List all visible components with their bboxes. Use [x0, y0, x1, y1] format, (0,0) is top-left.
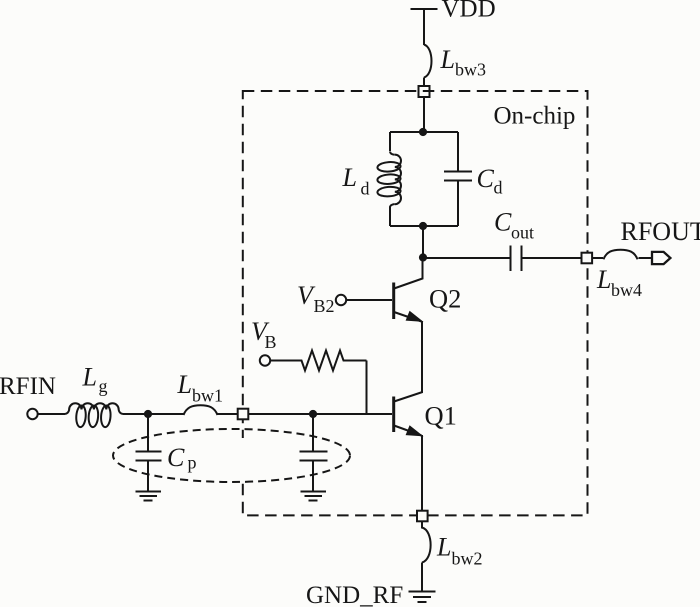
wire pad to tank top [423, 97, 425, 132]
svg-text:out: out [511, 223, 534, 243]
wire VB2 to Q2 base [346, 299, 392, 301]
inductor Lbw1 (bond-wire arc) [184, 405, 218, 415]
pad (bottom bond pad) [417, 511, 428, 522]
svg-text:RFIN: RFIN [0, 373, 56, 400]
capacitor Cp2 [300, 452, 328, 461]
svg-text:On-chip: On-chip [494, 103, 576, 130]
wire VDD to Lbw3 [423, 9, 425, 45]
node input (junction dot) [144, 410, 152, 418]
resistor RB (zigzag) [270, 351, 367, 371]
terminal VB2 (circle) [336, 295, 346, 305]
wire RFIN to Lg [38, 413, 66, 415]
label VDD [442, 0, 496, 23]
label Lbw1 [177, 370, 224, 406]
svg-text:bw1: bw1 [192, 386, 223, 406]
inductor Ld (coil) [377, 152, 401, 208]
ground GND_RF symbol [409, 592, 436, 603]
svg-text:d: d [494, 178, 503, 198]
svg-text:VDD: VDD [442, 0, 496, 23]
label Cout [494, 208, 534, 243]
wire pad to Lbw4 [592, 257, 603, 259]
wire tank left upper [389, 132, 391, 151]
wire Lg to Lbw1 [123, 413, 184, 415]
svg-text:bw2: bw2 [452, 549, 483, 569]
svg-text:L: L [82, 363, 97, 392]
VDD supply bar [411, 8, 438, 10]
wire Cp2 branch [312, 414, 314, 452]
svg-text:Q1: Q1 [425, 401, 457, 431]
wire Cp1 to ground [147, 461, 149, 492]
svg-text:L: L [440, 45, 455, 74]
svg-text:g: g [99, 376, 108, 396]
svg-text:C: C [167, 443, 185, 472]
label RFIN [0, 373, 56, 400]
inductor Lbw2 (bond-wire arc) [422, 521, 431, 562]
wire tank bottom rail [390, 225, 458, 227]
label GND_RF [306, 582, 403, 607]
label VB2 [297, 281, 335, 316]
transistor Q2 emitter with arrow [394, 312, 422, 322]
wire Lbw3 to pad [423, 78, 425, 87]
inductor Lbw3 (bond-wire arc) [424, 45, 432, 78]
wire Lbw2 to ground [421, 563, 423, 592]
svg-text:RFOUT: RFOUT [621, 217, 700, 246]
ground Cp2 [301, 492, 327, 501]
label Q1 [425, 401, 457, 431]
svg-text:bw4: bw4 [611, 280, 642, 300]
wire tank right upper [457, 132, 459, 171]
wire resistor to Q1 base [366, 361, 368, 415]
svg-text:Q2: Q2 [429, 284, 461, 314]
wire tank right lower [457, 181, 459, 226]
svg-text:GND_RF: GND_RF [306, 582, 403, 607]
label VB [251, 317, 277, 352]
wire tank top rail [390, 131, 458, 133]
node tank bottom (junction dot) [419, 222, 427, 230]
wire Lbw1 to pad [218, 413, 238, 415]
wire tank bottom to collector node [422, 226, 424, 258]
svg-text:B2: B2 [314, 296, 335, 316]
transistor Q1 emitter with arrow [394, 426, 422, 436]
svg-text:C: C [477, 164, 495, 193]
svg-text:L: L [177, 370, 192, 399]
capacitor Cd [444, 172, 472, 181]
node base Q1 (junction dot) [309, 410, 317, 418]
on-chip boundary (dashed box) [238, 91, 588, 515]
wire Cp1 branch [147, 414, 149, 452]
label Ld [342, 163, 370, 199]
svg-text:L: L [436, 533, 451, 562]
svg-text:p: p [188, 453, 197, 473]
svg-text:d: d [361, 179, 370, 199]
wire Q2 emitter to Q1 collector [421, 321, 423, 393]
svg-text:C: C [494, 208, 512, 237]
wire collector node to Cout [423, 257, 511, 259]
wire Lbw4 to RFOUT terminal [639, 257, 653, 259]
label Lbw3 [440, 45, 487, 80]
label Cp [167, 443, 197, 473]
label RFOUT [621, 217, 700, 246]
terminal RFIN (circle) [27, 409, 37, 419]
capacitor Cp1 [136, 452, 162, 461]
inductor Lbw4 (bond-wire arc) [604, 250, 638, 260]
label Cd [477, 164, 503, 198]
parasitic region (dashed ellipse) [113, 429, 350, 482]
pad (output bond pad) [582, 253, 593, 264]
wire Cp2 to ground [312, 461, 314, 492]
pad (input bond pad) [238, 409, 249, 420]
label Lbw4 [596, 265, 642, 300]
transistor Q2 base bar [392, 283, 395, 320]
label Lg [82, 363, 108, 397]
ground Cp1 [136, 492, 162, 501]
inductor Lg (coil) [65, 403, 124, 427]
wire Cout to pad [522, 257, 582, 259]
node tank top (junction dot) [419, 128, 427, 136]
capacitor Cout [511, 246, 522, 272]
svg-text:L: L [342, 163, 357, 192]
terminal RFOUT (port symbol) [652, 252, 670, 264]
transistor Q1 collector [394, 392, 423, 402]
label On-chip [494, 103, 576, 130]
svg-text:L: L [596, 265, 611, 294]
svg-text:bw3: bw3 [455, 60, 486, 80]
transistor Q2 collector [394, 258, 423, 289]
label Lbw2 [436, 533, 483, 569]
wire Q1 emitter to bottom pad [421, 435, 423, 511]
wire pad to Q1 base [248, 413, 392, 415]
wire tank left lower [389, 206, 391, 226]
pad (top bond pad) [419, 86, 430, 97]
terminal VB (circle) [260, 355, 270, 365]
svg-text:B: B [265, 332, 277, 352]
node collector Q2 (junction dot) [419, 253, 427, 261]
label Q2 [429, 284, 461, 314]
transistor Q1 base bar [392, 397, 395, 433]
